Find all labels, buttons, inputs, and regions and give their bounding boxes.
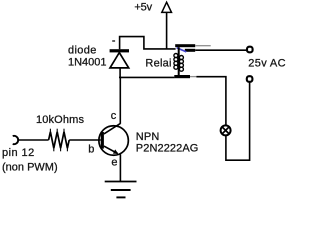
transistor Q1 P2N2222AG [99, 123, 129, 155]
label c [111, 110, 117, 122]
wire coil bottom to lamp top [196, 77, 226, 125]
wire emitter to ground [119, 154, 121, 181]
label non PWM [2, 162, 58, 174]
terminal 25v AC bottom [247, 76, 253, 82]
svg-text:10kOhms: 10kOhms [36, 114, 84, 126]
label Relai [145, 58, 171, 70]
label e [111, 156, 117, 168]
wire lamp bottom to terminal 2 [226, 83, 250, 161]
label +5v [134, 2, 152, 14]
svg-text:c: c [111, 110, 117, 122]
relay K1 coil [174, 47, 184, 76]
power symbol +5v arrow [162, 2, 172, 12]
wire diode top step to relay common [120, 37, 176, 50]
resistor R1 10kOhms [49, 129, 70, 152]
label 10kOhms [36, 114, 84, 126]
label diode [68, 44, 97, 56]
wire collector to diode node [119, 77, 121, 124]
svg-text:P2N2222AG: P2N2222AG [136, 143, 199, 155]
relay K1 coil bottom pin bar [174, 75, 196, 78]
svg-text:25v AC: 25v AC [248, 57, 286, 69]
wire input to resistor [18, 139, 49, 141]
diode D1 1N4001 cathode polarity minus mark [112, 40, 115, 41]
svg-text:e: e [111, 156, 117, 168]
svg-text:b: b [88, 143, 94, 155]
wire resistor to base [69, 139, 101, 141]
label P2N2222AG [136, 143, 199, 155]
svg-text:pin 12: pin 12 [2, 147, 35, 159]
lamp [221, 125, 231, 135]
wire diode anode down to collector node [119, 68, 121, 78]
input pin connector [13, 136, 18, 144]
label 1N4001 [68, 56, 107, 68]
svg-text:(non PWM): (non PWM) [2, 162, 58, 174]
label pin 12 [2, 147, 35, 159]
label b [88, 143, 94, 155]
svg-text:+5v: +5v [134, 2, 152, 14]
label NPN [136, 131, 160, 143]
svg-text:NPN: NPN [136, 131, 160, 143]
svg-text:1N4001: 1N4001 [68, 56, 107, 68]
label 25v AC [248, 57, 286, 69]
svg-text:Relai: Relai [145, 58, 171, 70]
wire relay NO contact to terminal 1 [195, 49, 246, 51]
svg-text:diode: diode [68, 44, 97, 56]
terminal 25v AC top [247, 47, 253, 53]
diode D1 1N4001 [110, 49, 129, 68]
wire collector node to relay coil bottom [119, 76, 174, 78]
relay K1 contact bar NO [185, 49, 206, 52]
relay K1 contact bar NC [175, 44, 211, 47]
ground [105, 182, 137, 198]
wire +5v vertical [166, 13, 168, 49]
relay K1 switch lever [177, 48, 187, 52]
